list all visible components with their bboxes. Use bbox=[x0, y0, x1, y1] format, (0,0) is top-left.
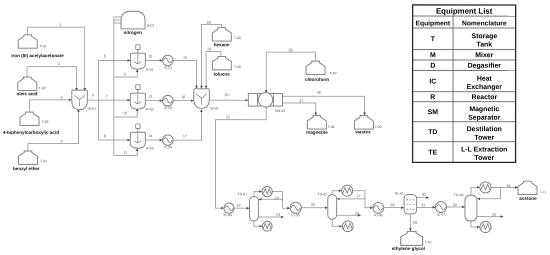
svg-text:L-L Extraction: L-L Extraction bbox=[461, 146, 507, 153]
svg-text:2: 2 bbox=[58, 62, 60, 66]
svg-text:T-08: T-08 bbox=[327, 125, 334, 129]
svg-text:Equipment List: Equipment List bbox=[436, 7, 493, 16]
svg-text:D-01: D-01 bbox=[147, 23, 155, 27]
svg-text:4: 4 bbox=[60, 140, 62, 144]
svg-text:Heat: Heat bbox=[477, 76, 493, 83]
svg-text:SM: SM bbox=[428, 109, 439, 116]
svg-text:Exchanger: Exchanger bbox=[467, 84, 503, 91]
svg-text:1: 1 bbox=[59, 23, 61, 27]
svg-text:Storage: Storage bbox=[472, 33, 498, 40]
svg-text:10: 10 bbox=[123, 111, 127, 115]
svg-text:IC-05: IC-05 bbox=[291, 213, 299, 217]
svg-text:oleic acid: oleic acid bbox=[17, 91, 38, 96]
svg-text:M: M bbox=[430, 52, 436, 59]
svg-text:TD-02: TD-02 bbox=[317, 192, 327, 196]
svg-text:Separator: Separator bbox=[468, 115, 500, 122]
svg-text:9: 9 bbox=[123, 73, 125, 77]
svg-text:37: 37 bbox=[299, 99, 303, 103]
svg-text:SM-01: SM-01 bbox=[275, 109, 285, 113]
svg-text:R-02: R-02 bbox=[146, 108, 154, 112]
svg-text:24: 24 bbox=[275, 196, 279, 200]
svg-text:IC-07: IC-07 bbox=[437, 213, 445, 217]
svg-text:TE: TE bbox=[428, 149, 437, 156]
svg-text:Mixer: Mixer bbox=[475, 52, 493, 59]
svg-text:5: 5 bbox=[92, 94, 94, 98]
svg-text:IC-01: IC-01 bbox=[164, 66, 172, 70]
svg-text:IC-03: IC-03 bbox=[164, 145, 172, 149]
svg-text:27: 27 bbox=[357, 194, 361, 198]
svg-text:11: 11 bbox=[123, 151, 127, 155]
svg-text:T-10: T-10 bbox=[424, 240, 431, 244]
svg-text:Tower: Tower bbox=[474, 155, 494, 162]
svg-text:D: D bbox=[430, 63, 435, 70]
svg-text:36: 36 bbox=[317, 91, 321, 95]
svg-text:T-07: T-07 bbox=[330, 72, 337, 76]
svg-text:T-03: T-03 bbox=[42, 120, 49, 124]
svg-text:4-biphenylcarboxylic acid: 4-biphenylcarboxylic acid bbox=[3, 130, 59, 135]
svg-text:M-02: M-02 bbox=[211, 106, 219, 110]
svg-text:wastes: wastes bbox=[354, 129, 371, 134]
svg-text:R-03: R-03 bbox=[146, 147, 154, 151]
svg-text:IC-06: IC-06 bbox=[374, 213, 382, 217]
svg-text:20: 20 bbox=[224, 93, 228, 97]
svg-text:IC: IC bbox=[429, 79, 436, 86]
svg-text:ethylene glycol: ethylene glycol bbox=[392, 246, 425, 251]
svg-text:TD-01: TD-01 bbox=[237, 192, 247, 196]
svg-text:15: 15 bbox=[183, 56, 187, 60]
svg-text:benzyl ether: benzyl ether bbox=[13, 166, 40, 171]
svg-text:14: 14 bbox=[148, 134, 152, 138]
svg-text:21: 21 bbox=[226, 115, 230, 119]
svg-text:23: 23 bbox=[276, 213, 280, 217]
svg-text:33: 33 bbox=[492, 213, 496, 217]
svg-text:Tank: Tank bbox=[477, 42, 493, 49]
svg-text:T-01: T-01 bbox=[40, 44, 47, 48]
svg-text:TE-01: TE-01 bbox=[394, 192, 404, 196]
svg-text:29: 29 bbox=[413, 221, 417, 225]
svg-text:Magnetic: Magnetic bbox=[469, 106, 499, 113]
svg-text:TD: TD bbox=[428, 129, 437, 136]
svg-text:12: 12 bbox=[148, 55, 152, 59]
svg-text:acetone: acetone bbox=[519, 196, 537, 201]
svg-text:19: 19 bbox=[207, 47, 211, 51]
svg-text:32: 32 bbox=[453, 203, 457, 207]
svg-text:T-11: T-11 bbox=[539, 190, 546, 194]
svg-text:17: 17 bbox=[183, 134, 187, 138]
svg-text:7: 7 bbox=[106, 94, 108, 98]
svg-text:Tower: Tower bbox=[474, 135, 494, 142]
svg-text:18: 18 bbox=[206, 21, 210, 25]
svg-text:3: 3 bbox=[60, 96, 62, 100]
svg-text:toluene: toluene bbox=[213, 72, 230, 77]
svg-text:6: 6 bbox=[104, 54, 106, 58]
svg-text:26: 26 bbox=[355, 212, 359, 216]
svg-text:magnetite: magnetite bbox=[306, 130, 328, 135]
svg-text:35: 35 bbox=[288, 48, 292, 52]
svg-text:31: 31 bbox=[421, 203, 425, 207]
svg-text:M-01: M-01 bbox=[88, 107, 96, 111]
svg-text:T-05: T-05 bbox=[234, 36, 241, 40]
svg-text:28: 28 bbox=[390, 203, 394, 207]
svg-text:Destilation: Destilation bbox=[467, 126, 502, 133]
svg-text:Degasifier: Degasifier bbox=[468, 63, 502, 70]
svg-text:TD-03: TD-03 bbox=[454, 193, 464, 197]
svg-text:nitrogen: nitrogen bbox=[124, 30, 143, 35]
svg-text:34: 34 bbox=[506, 184, 510, 188]
svg-text:25: 25 bbox=[311, 203, 315, 207]
svg-text:hexane: hexane bbox=[214, 42, 230, 47]
svg-text:Equipment: Equipment bbox=[416, 20, 451, 27]
svg-text:8: 8 bbox=[104, 134, 106, 138]
svg-text:R-01: R-01 bbox=[146, 68, 154, 72]
svg-text:iron (III) acetylacetonate: iron (III) acetylacetonate bbox=[11, 53, 64, 58]
svg-text:16: 16 bbox=[181, 95, 185, 99]
svg-text:30: 30 bbox=[422, 193, 426, 197]
svg-text:13: 13 bbox=[148, 95, 152, 99]
svg-text:T-04: T-04 bbox=[40, 159, 47, 163]
svg-text:R: R bbox=[430, 94, 435, 101]
svg-text:T-02: T-02 bbox=[39, 86, 46, 90]
svg-text:chloroform: chloroform bbox=[305, 77, 329, 82]
svg-text:22: 22 bbox=[237, 204, 241, 208]
svg-text:IC-04: IC-04 bbox=[224, 213, 232, 217]
svg-text:Reactor: Reactor bbox=[471, 94, 497, 101]
svg-text:T-06: T-06 bbox=[234, 65, 241, 69]
svg-text:Nomenclature: Nomenclature bbox=[462, 20, 507, 27]
svg-text:T-09: T-09 bbox=[374, 125, 381, 129]
svg-text:IC-02: IC-02 bbox=[164, 106, 172, 110]
